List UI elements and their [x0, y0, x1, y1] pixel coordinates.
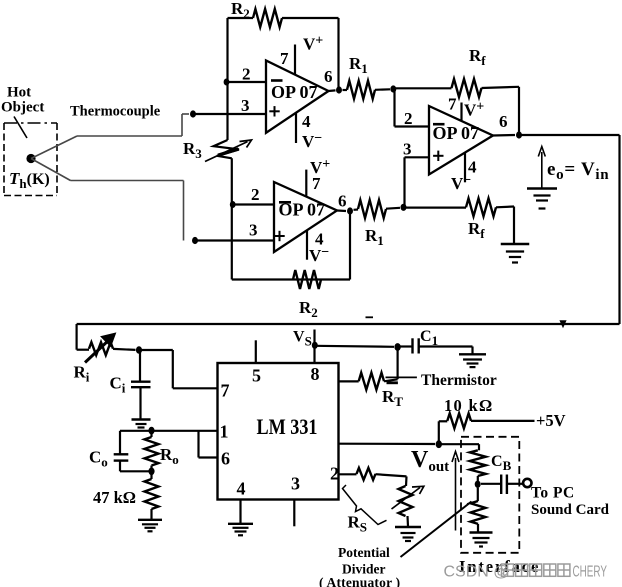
svg-text:2: 2 — [330, 464, 339, 484]
svg-text:Thermocouple: Thermocouple — [70, 104, 161, 120]
svg-text:4: 4 — [302, 112, 311, 131]
svg-text:6: 6 — [338, 192, 347, 211]
svg-text:Thermistor: Thermistor — [421, 372, 497, 389]
svg-text:Th(K): Th(K) — [9, 169, 50, 191]
svg-text:1: 1 — [220, 422, 229, 442]
svg-text:Object: Object — [1, 100, 44, 116]
svg-text:5: 5 — [252, 366, 261, 386]
svg-text:( Attenuator ): ( Attenuator ) — [319, 575, 400, 587]
svg-text:8: 8 — [311, 364, 320, 384]
svg-text:3: 3 — [403, 140, 412, 159]
svg-text:2: 2 — [251, 185, 260, 204]
svg-text:CSDN @: CSDN @ — [444, 564, 510, 581]
svg-text:LM 331: LM 331 — [257, 414, 318, 439]
svg-text:47 kΩ: 47 kΩ — [93, 488, 136, 507]
svg-text:7: 7 — [448, 95, 457, 114]
svg-text:Potential: Potential — [338, 545, 390, 560]
svg-text:7: 7 — [280, 49, 289, 68]
svg-text:OP 07: OP 07 — [271, 82, 318, 102]
svg-text:CHERY: CHERY — [573, 564, 608, 581]
svg-text:To PC: To PC — [531, 485, 575, 502]
svg-text:3: 3 — [241, 96, 250, 115]
svg-text:Sound Card: Sound Card — [531, 502, 610, 518]
svg-text:3: 3 — [291, 474, 300, 494]
svg-text:6: 6 — [324, 67, 333, 86]
svg-text:OP 07: OP 07 — [433, 123, 480, 143]
svg-text:2: 2 — [242, 65, 251, 84]
svg-text:3: 3 — [249, 221, 258, 240]
svg-text:7: 7 — [221, 381, 230, 401]
svg-text:OP 07: OP 07 — [279, 200, 326, 220]
svg-text:10 kΩ: 10 kΩ — [444, 396, 494, 415]
svg-text:6: 6 — [499, 112, 508, 131]
svg-text:4: 4 — [237, 479, 246, 499]
svg-text:Hot: Hot — [7, 85, 31, 101]
svg-text:+5V: +5V — [536, 411, 566, 430]
svg-text:6: 6 — [221, 449, 230, 469]
svg-text:2: 2 — [404, 109, 413, 128]
